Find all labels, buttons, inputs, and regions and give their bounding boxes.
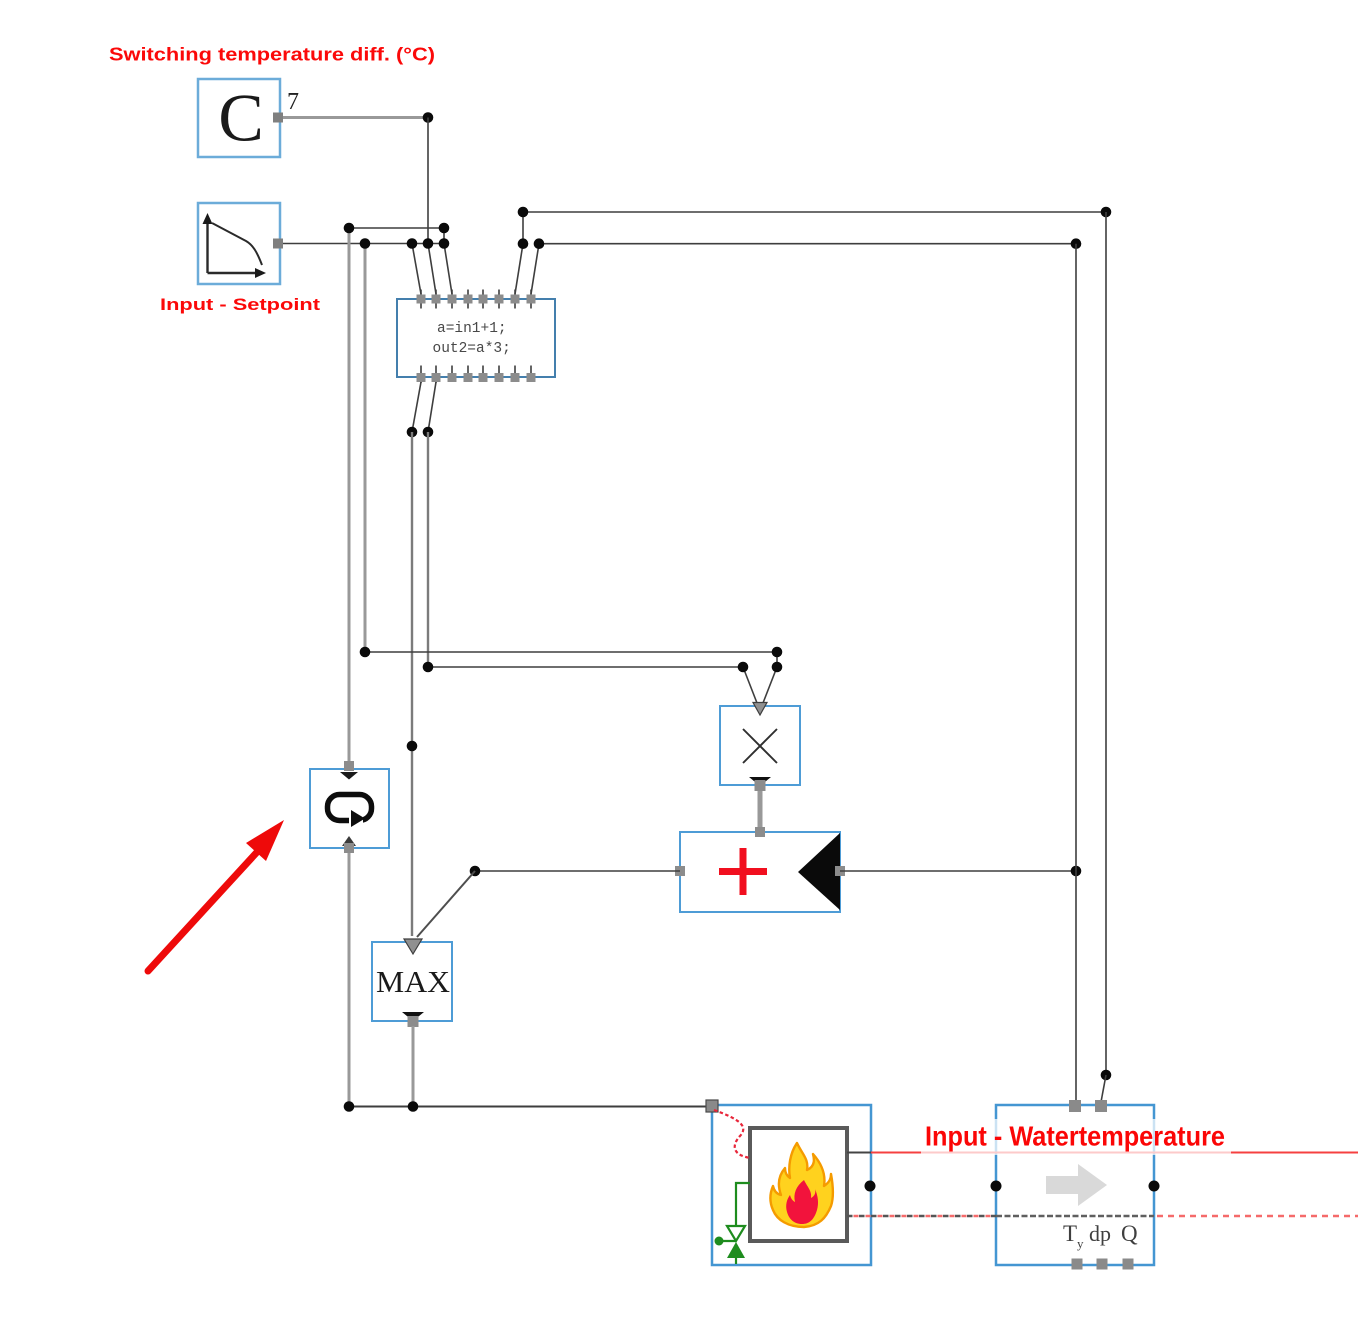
node N16 (423, 662, 434, 673)
port MAX.out (402, 1012, 424, 1027)
svg-text:MAX: MAX (376, 964, 450, 999)
red control curve (714, 1110, 750, 1158)
node N13 (407, 741, 418, 752)
node N20 (470, 866, 481, 877)
port plus.left (675, 866, 685, 876)
port Setpoint.out (273, 239, 283, 249)
equation block U1 (397, 299, 555, 377)
node N3 (360, 238, 371, 249)
wire N7 slant to eqn pin3 (444, 244, 452, 295)
plus block (680, 832, 840, 912)
svg-text:Input - Watertemperature: Input - Watertemperature (925, 1121, 1225, 1152)
watertemp top pins (1069, 1100, 1107, 1112)
wire N4 slant to eqn pin1 (412, 244, 421, 295)
port loop.bottom (342, 836, 356, 853)
wire N12 to N17 horizontal y652 (365, 651, 777, 653)
node burner.right (865, 1181, 876, 1192)
loop block (310, 769, 389, 848)
wire N5 slant to eqn pin2 (428, 244, 436, 295)
wire eqn out1 slant to N11a (412, 382, 421, 432)
wire N3 down to N12 (364, 244, 367, 653)
wire plus.left to node N20 (475, 870, 680, 872)
MAX block (372, 942, 452, 1021)
wire N1 down to N5 (427, 118, 429, 244)
node N21 (1071, 866, 1082, 877)
wire N22 slant to watertemp pin2 (1101, 1075, 1106, 1102)
node N22 (1101, 1070, 1112, 1081)
wire N8 to N14 horizontal y212 (523, 211, 1106, 213)
wire C.out to node N1 (283, 116, 428, 119)
node N1 (423, 112, 434, 123)
wire N10 to N15 horizontal y244 (539, 243, 1076, 245)
green gas valve (715, 1183, 751, 1264)
node N24 (408, 1101, 419, 1112)
wire N11b down to N16 (427, 432, 429, 667)
svg-text:C: C (218, 80, 263, 156)
svg-text:Q: Q (1121, 1221, 1138, 1246)
red output line (871, 1152, 1358, 1154)
port multiply.out (749, 777, 771, 791)
wire N10 slant to eqn pin8 (531, 244, 539, 294)
port plus.top (755, 827, 765, 837)
input block Setpoint curve (198, 203, 280, 284)
eqn top pins (417, 290, 536, 309)
port burner.topleft (706, 1100, 718, 1112)
svg-text:a=in1+1;: a=in1+1; (437, 321, 507, 337)
wire N14 down to N22 (1105, 212, 1107, 1075)
wire burner to red line (847, 1152, 871, 1154)
wire N19 slant to multiply top (763, 667, 777, 703)
node N23 (344, 1101, 355, 1112)
label Input - Watertemperature background (921, 1119, 1231, 1155)
gray dashed flow line segment B (996, 1215, 1154, 1218)
svg-text:Input - Setpoint: Input - Setpoint (160, 295, 320, 314)
constant block C (198, 79, 280, 157)
port loop.top (340, 761, 358, 780)
node N18 (738, 662, 749, 673)
node watertemp.left (991, 1181, 1002, 1192)
wire N2 down to loop top (348, 228, 351, 766)
node N2 (344, 223, 355, 234)
node watertemp.right (1149, 1181, 1160, 1192)
node N5 (423, 238, 434, 249)
gray dashed flow line segment A (847, 1215, 996, 1218)
port C.out (273, 113, 283, 123)
node N17 (772, 647, 783, 658)
node N14 (1101, 207, 1112, 218)
wire N8 to N9 vertical (522, 212, 524, 244)
port multiply.in arrow (753, 703, 767, 716)
wire eqn out2 slant to N11b (428, 382, 436, 432)
wire N17 to N19 (776, 652, 778, 667)
node N15 (1071, 238, 1082, 249)
svg-text:y: y (1077, 1236, 1084, 1251)
wire plus.right to node N21 (840, 870, 1076, 872)
red annotation arrow (148, 820, 284, 971)
node N11a (407, 427, 418, 438)
port plus.right (835, 866, 845, 876)
node N6 (439, 223, 450, 234)
wire multiply.out to plus.top (758, 791, 763, 830)
flame icon (770, 1143, 833, 1227)
wire N9 slant to eqn pin7 (515, 244, 523, 294)
wire N16 to N18 horizontal y667 (428, 666, 743, 668)
node N9 (518, 238, 529, 249)
wire node N2 to node N6 horizontal y228 (349, 227, 444, 229)
wire N11a down to MAX top (411, 432, 413, 936)
node N19 (772, 662, 783, 673)
svg-text:T: T (1063, 1221, 1077, 1246)
wire N6 to N7 (443, 228, 445, 244)
wire Setpoint.out to node N7 (283, 243, 444, 245)
wire MAX.out down to N24 (412, 1026, 415, 1107)
node N10 (534, 238, 545, 249)
wire N23 to burner port horizontal (349, 1106, 707, 1108)
watertemp block (996, 1105, 1154, 1265)
node N12 (360, 647, 371, 658)
node N7 (439, 238, 450, 249)
svg-text:Switching temperature diff. (°: Switching temperature diff. (°C) (109, 45, 435, 65)
red dashed flow line segment A (854, 1215, 997, 1218)
burner block (712, 1105, 871, 1265)
node N11b (423, 427, 434, 438)
svg-text:dp: dp (1089, 1221, 1111, 1246)
node N8 (518, 207, 529, 218)
wire N15 down to watertemp pin1 (1075, 244, 1077, 1102)
svg-text:7: 7 (287, 89, 299, 115)
wire N20 diagonal to MAX top (417, 871, 475, 937)
node N4 (407, 238, 418, 249)
wire loop.bottom down to N23 (348, 853, 351, 1107)
multiply block (720, 706, 800, 785)
eqn bottom pins (417, 366, 536, 384)
wire N18 slant to multiply top (743, 667, 757, 703)
svg-text:out2=a*3;: out2=a*3; (433, 341, 511, 357)
watertemp bottom pins (1072, 1259, 1134, 1270)
red dashed flow line segment C (1157, 1215, 1358, 1218)
port MAX.in arrow (404, 939, 422, 954)
